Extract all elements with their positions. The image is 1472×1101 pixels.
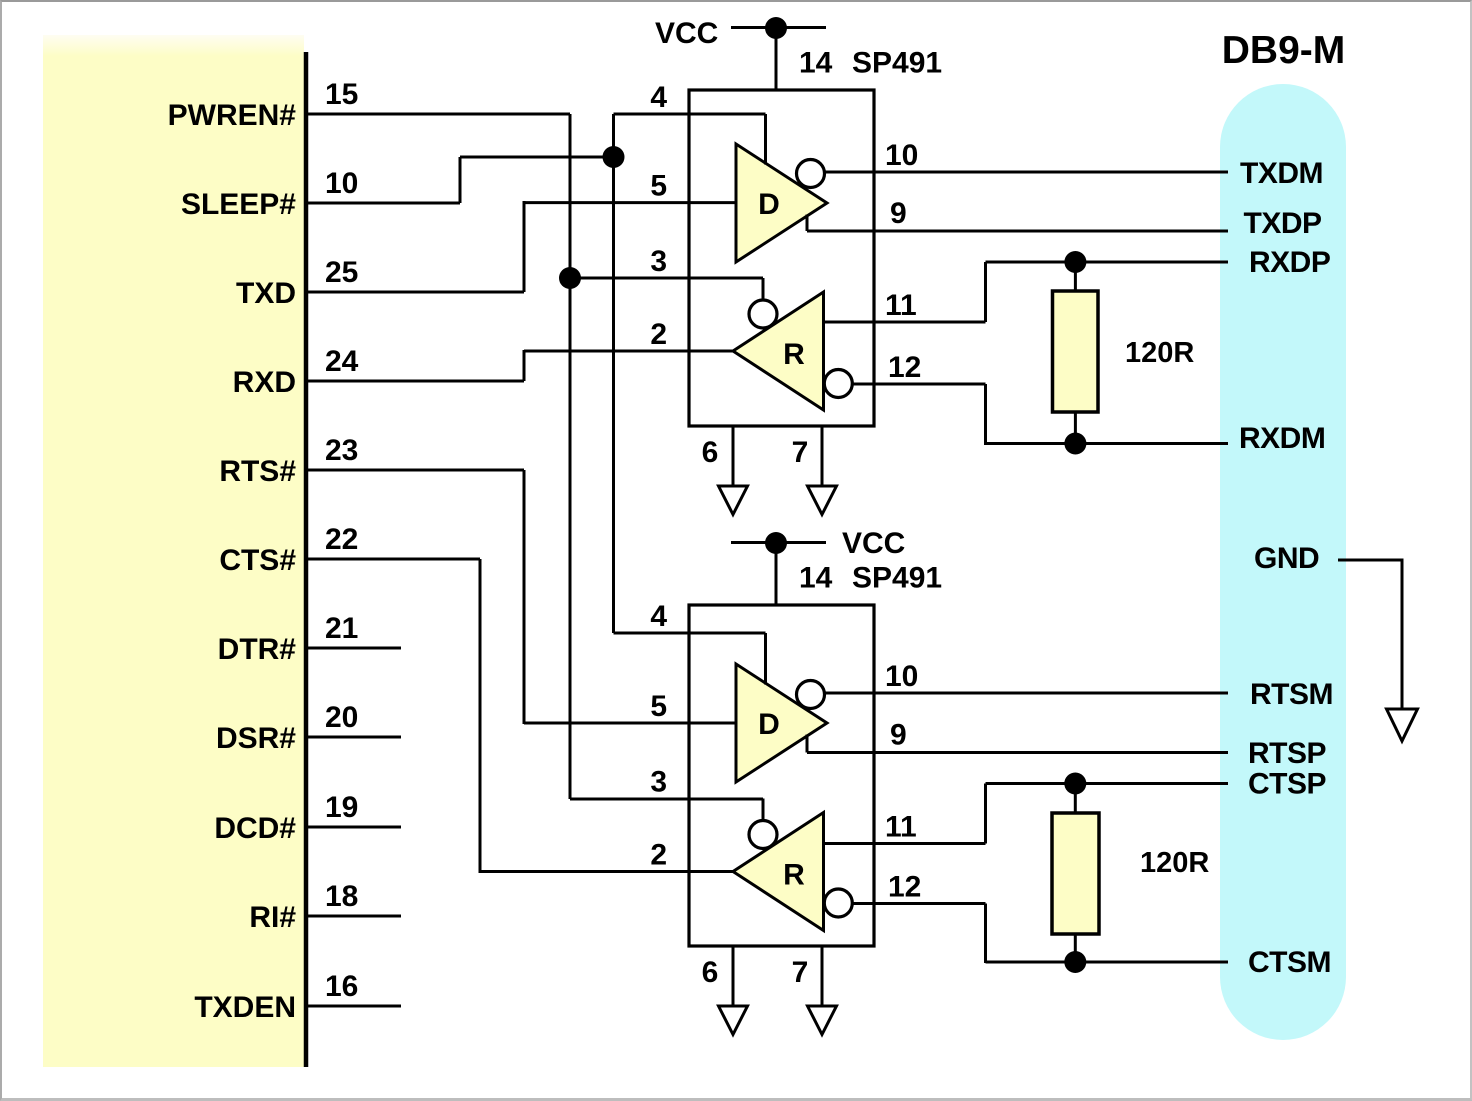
wire pin14 U2	[775, 543, 778, 606]
driver inverting bubble U2	[797, 681, 825, 709]
receiver enable bubble U2	[749, 821, 777, 849]
wire DTR# stub	[306, 647, 401, 650]
wire DE vertical	[612, 114, 615, 633]
wire CTS# from R2 output (pin2 lower)	[480, 870, 733, 873]
receiver R U2	[733, 813, 824, 931]
ground pin6 U1	[719, 486, 748, 515]
SP491 U2 body	[689, 605, 874, 946]
yellow box right border	[304, 52, 309, 1067]
SP491 U1 body	[689, 90, 874, 426]
driver inverting bubble U1	[797, 160, 825, 188]
node CTSP/R2 junction	[1064, 773, 1086, 795]
wire pin9 drop U2	[806, 735, 809, 753]
wire pin10 out U2	[823, 692, 1228, 695]
wire RTS# stub	[306, 469, 524, 472]
wire pin7 U1	[821, 426, 824, 486]
node RXDP/R1 junction	[1064, 251, 1086, 273]
resistor R1 lead bottom	[1074, 412, 1077, 444]
driver D U2	[736, 664, 827, 782]
resistor R1 lead top	[1074, 262, 1077, 291]
wire TXDEN stub	[306, 1005, 401, 1008]
wire pin11 U2	[824, 842, 986, 845]
wire RTS# down-jog	[523, 470, 526, 724]
wire DE2 (pin4 lower)	[614, 632, 766, 635]
wire DCD# stub	[306, 826, 401, 829]
wire pin7 U2	[821, 946, 824, 1006]
wire RXD from R1 output (pin2 upper)	[524, 350, 733, 353]
wire pin6 U2	[732, 946, 735, 1006]
node CTSM/R2 junction	[1064, 951, 1086, 973]
wire pin12 U1 down-jog	[984, 384, 987, 445]
wire DE enable drop U2	[764, 633, 767, 685]
node RXDM/R1 junction	[1064, 433, 1086, 455]
wire pin11 U1	[824, 321, 986, 324]
receiver enable bubble U1	[749, 300, 777, 328]
receiver inverting bubble U2	[824, 889, 852, 917]
wire SLEEP# stub	[306, 202, 460, 205]
wire pin10 out U1	[823, 171, 1228, 174]
wire DSR# stub	[306, 736, 401, 739]
VCC rail U2	[731, 541, 826, 544]
resistor R2 lead top	[1074, 784, 1077, 814]
wire pin9 drop U1	[806, 215, 809, 232]
wire RTS# to D2 input (pin5 lower)	[524, 722, 737, 725]
wire CTSP	[986, 782, 1229, 785]
wire PWREN# vertical (net to RE pins 3)	[569, 114, 572, 799]
wire pin11 U2 up-jog	[984, 784, 987, 844]
wire DE1 (pin4 upper)	[614, 113, 766, 116]
wire RI# stub	[306, 915, 401, 918]
wire pin12 U2	[851, 902, 986, 905]
wire CTS# down-jog	[479, 559, 482, 873]
node PWREN#/RE1 junction	[559, 267, 581, 289]
wire CTSM	[986, 961, 1229, 964]
node SLEEP#/DE junction	[603, 146, 625, 168]
wire pin6 U1	[732, 426, 735, 486]
wire RE2 entry (pin3 lower)	[570, 798, 763, 801]
wire RE1 (pin3 upper)	[570, 277, 763, 280]
node VCC dot U1	[765, 17, 787, 39]
wire TXD stub	[306, 291, 524, 294]
wire DE enable drop U1	[764, 114, 767, 165]
FT232/host IC body (yellow box)	[43, 55, 304, 1067]
wire pin11 U1 up-jog	[984, 262, 987, 322]
wire TXD to D1 input (pin5 upper)	[524, 201, 736, 204]
node VCC dot U2	[765, 532, 787, 554]
receiver R U1	[733, 292, 824, 410]
wire CTS# stub	[306, 558, 480, 561]
wire pin9 out U1	[807, 230, 1228, 233]
resistor R2 lead bottom	[1074, 934, 1077, 962]
wire RXDP	[986, 261, 1229, 264]
wire pin12 U2 down-jog	[984, 904, 987, 964]
wire PWREN# stub	[306, 113, 570, 116]
wire SLEEP# horizontal	[460, 156, 614, 159]
ground pin7 U2	[808, 1006, 837, 1035]
wire pin12 U1	[851, 383, 986, 386]
ground pin7 U1	[808, 486, 837, 515]
wire RXDM	[986, 442, 1229, 445]
ground GND symbol	[1387, 709, 1418, 741]
wire RE drop U2	[762, 799, 765, 822]
wire RE drop U1	[762, 278, 765, 301]
ground pin6 U2	[719, 1006, 748, 1035]
wire SLEEP# up-jog	[459, 157, 462, 203]
wire RXD up-jog	[523, 350, 526, 381]
wire pin9 out U2	[807, 751, 1228, 754]
DB9-M connector capsule	[1220, 84, 1346, 1040]
receiver inverting bubble U1	[824, 370, 852, 398]
wire TXD up-jog	[523, 201, 526, 292]
wire GND	[1338, 560, 1402, 710]
wire RXD stub	[306, 380, 524, 383]
resistor R2 120R	[1052, 813, 1099, 934]
resistor R1 120R	[1053, 291, 1099, 412]
driver D U1	[736, 144, 827, 262]
VCC rail U1	[731, 26, 826, 29]
wire pin14 U1	[775, 28, 778, 91]
